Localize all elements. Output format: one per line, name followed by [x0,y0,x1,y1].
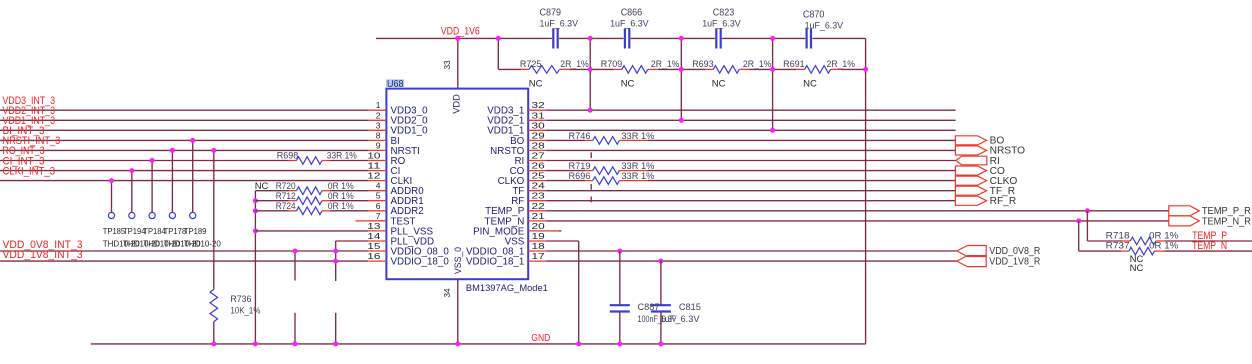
svg-text:NC: NC [255,181,269,192]
svg-text:2: 2 [376,110,381,120]
svg-text:TEMP_N_R: TEMP_N_R [1202,216,1251,227]
svg-text:C866: C866 [621,8,643,19]
svg-text:0R 1%: 0R 1% [328,201,355,212]
svg-text:30: 30 [532,120,546,130]
svg-text:10K_1%: 10K_1% [230,305,260,316]
svg-text:C815: C815 [679,302,701,313]
svg-text:6: 6 [376,201,381,211]
svg-text:VDD_1V6: VDD_1V6 [441,26,480,38]
svg-text:33R 1%: 33R 1% [621,171,655,182]
svg-text:7: 7 [376,211,381,221]
svg-text:1uF_6.3V: 1uF_6.3V [610,19,649,30]
svg-text:31: 31 [532,110,546,120]
svg-text:32: 32 [532,100,546,110]
svg-text:R725: R725 [520,59,542,70]
svg-text:3: 3 [376,120,381,130]
svg-text:R691: R691 [783,59,805,70]
svg-text:R746: R746 [569,131,591,142]
svg-text:C823: C823 [713,8,735,19]
svg-text:1uF_6.3V: 1uF_6.3V [540,19,579,30]
svg-text:1uF_6.3V: 1uF_6.3V [660,314,701,325]
svg-text:11: 11 [367,161,381,171]
svg-text:8: 8 [376,130,381,140]
svg-text:R736: R736 [230,294,251,305]
svg-text:TEMP_N: TEMP_N [1192,240,1227,252]
svg-text:9: 9 [376,140,381,150]
svg-text:RI: RI [990,156,1000,167]
svg-text:C879: C879 [540,8,562,19]
svg-text:NC: NC [529,79,543,90]
svg-text:VDD_1V8_INT_3: VDD_1V8_INT_3 [3,249,83,261]
svg-text:1uF_6.3V: 1uF_6.3V [702,19,741,30]
svg-text:THD10-20: THD10-20 [184,239,221,249]
svg-text:22: 22 [532,201,546,211]
svg-text:VDDIO_18_0: VDDIO_18_0 [391,257,450,268]
svg-text:R709: R709 [601,59,623,70]
svg-text:15: 15 [367,241,381,251]
svg-text:25: 25 [532,171,546,181]
svg-text:28: 28 [532,140,546,150]
svg-text:U68: U68 [387,79,404,90]
svg-text:20: 20 [532,221,546,231]
svg-text:33: 33 [443,60,452,70]
svg-text:BM1397AG_Mode1: BM1397AG_Mode1 [466,283,548,294]
svg-text:R737: R737 [1106,241,1130,252]
svg-text:R696: R696 [569,171,591,182]
svg-text:VDD: VDD [452,94,463,114]
svg-text:1: 1 [376,100,381,110]
svg-text:C887: C887 [638,302,660,313]
svg-text:VDDIO_18_1: VDDIO_18_1 [466,257,524,268]
svg-text:34: 34 [443,288,452,298]
svg-text:TP189: TP189 [184,226,207,236]
svg-text:RF_R: RF_R [990,196,1017,207]
svg-text:0R 1%: 0R 1% [1149,241,1179,252]
svg-text:23: 23 [532,191,546,201]
svg-text:33R 1%: 33R 1% [327,151,357,162]
svg-text:R724: R724 [276,201,296,212]
svg-text:5: 5 [376,191,381,201]
svg-text:2R_1%: 2R_1% [651,59,680,70]
svg-text:17: 17 [532,251,546,261]
svg-text:26: 26 [532,161,546,171]
svg-text:27: 27 [532,151,546,161]
svg-text:14: 14 [367,231,381,241]
svg-text:NC: NC [621,79,635,90]
svg-text:C870: C870 [803,10,825,21]
svg-text:18: 18 [532,241,546,251]
svg-text:24: 24 [532,181,546,191]
svg-text:R693: R693 [692,59,714,70]
svg-text:1uF_6.3V: 1uF_6.3V [805,21,844,32]
svg-text:2R_1%: 2R_1% [560,59,589,70]
svg-text:29: 29 [532,130,546,140]
svg-text:GND: GND [531,333,550,344]
svg-text:R698: R698 [277,151,299,162]
svg-text:CLKI_INT_3: CLKI_INT_3 [3,165,56,177]
svg-text:2R_1%: 2R_1% [743,59,772,70]
svg-text:NC: NC [1130,263,1144,274]
svg-text:2R_1%: 2R_1% [827,59,856,70]
svg-text:10: 10 [367,151,381,161]
svg-text:VSS_0: VSS_0 [453,247,464,274]
svg-text:33R 1%: 33R 1% [621,131,655,142]
svg-text:21: 21 [532,211,546,221]
svg-text:13: 13 [367,221,381,231]
svg-text:NC: NC [803,79,817,90]
svg-text:19: 19 [532,231,546,241]
svg-text:VDD_1V8_R: VDD_1V8_R [989,256,1040,267]
svg-text:NC: NC [712,79,726,90]
svg-text:16: 16 [367,251,381,261]
svg-text:12: 12 [367,171,381,181]
svg-text:4: 4 [376,181,381,191]
